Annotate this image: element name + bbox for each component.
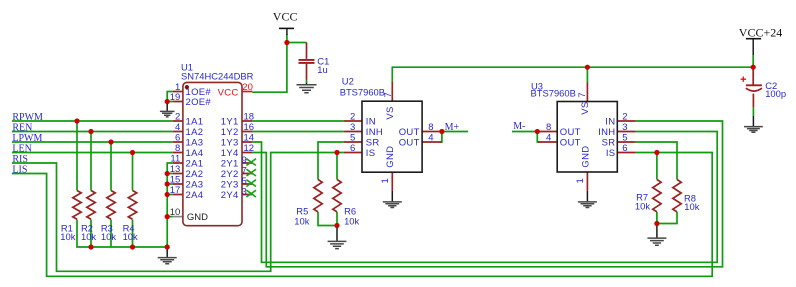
ground (below U1 / resistor rail) <box>158 249 177 264</box>
svg-text:7: 7 <box>577 92 588 97</box>
svg-text:1: 1 <box>380 178 391 183</box>
wire REN <box>12 131 173 133</box>
svg-text:GND: GND <box>187 212 208 223</box>
svg-text:VCC+24: VCC+24 <box>739 25 782 39</box>
ground (U1 pins 1,19) <box>160 104 175 117</box>
no-connect X on U1 pin 5 <box>246 180 256 187</box>
svg-text:BTS7960B: BTS7960B <box>531 88 576 99</box>
resistor R5 <box>314 180 322 212</box>
U1 pin stubs left <box>173 92 183 195</box>
wire C2 lower lead green bit <box>752 107 754 116</box>
ground (C2) <box>744 116 763 132</box>
svg-text:2Y4: 2Y4 <box>221 190 239 201</box>
svg-text:5: 5 <box>242 176 247 187</box>
svg-text:13: 13 <box>170 164 181 175</box>
svg-text:1A1: 1A1 <box>186 116 204 127</box>
wire R1-R4 bottoms to ground rail <box>77 220 167 248</box>
junction node U2 IS / R6 <box>334 150 339 155</box>
svg-text:2Y2: 2Y2 <box>221 169 239 180</box>
svg-text:LIS: LIS <box>12 164 27 175</box>
svg-text:8: 8 <box>175 143 180 154</box>
svg-text:M+: M+ <box>445 122 460 133</box>
svg-text:3: 3 <box>242 187 247 198</box>
svg-text:2A2: 2A2 <box>186 169 204 180</box>
junction node VCC+24/C2 <box>751 65 756 70</box>
capacitor C1 leads <box>306 43 308 80</box>
svg-text:19: 19 <box>170 92 181 103</box>
junction node rail R4 <box>130 244 135 249</box>
svg-text:4: 4 <box>428 132 433 143</box>
svg-text:5: 5 <box>622 132 627 143</box>
wire R5 R6 bottoms tie <box>318 212 337 226</box>
capacitor C2 plates (polarized) <box>746 84 762 86</box>
wire R7 R8 bottoms tie <box>657 212 677 224</box>
svg-text:8: 8 <box>428 122 433 133</box>
svg-text:3: 3 <box>622 122 627 133</box>
svg-text:18: 18 <box>244 111 255 122</box>
U3 BTS7960B body <box>557 102 617 173</box>
svg-text:10: 10 <box>170 207 181 218</box>
svg-text:M-: M- <box>513 121 525 132</box>
svg-text:10k: 10k <box>123 231 138 242</box>
svg-text:9: 9 <box>242 155 247 166</box>
capacitor C2 plus sign <box>741 77 746 82</box>
ground (R7 R8) <box>647 226 666 246</box>
svg-text:1Y2: 1Y2 <box>221 127 239 138</box>
power symbol VCC+24 <box>739 25 782 55</box>
U2 BTS7960B body <box>362 101 422 172</box>
junction node rail ground <box>165 244 170 249</box>
svg-text:10k: 10k <box>101 231 116 242</box>
svg-text:OUT: OUT <box>560 127 581 138</box>
svg-text:6: 6 <box>175 132 180 143</box>
svg-text:1Y3: 1Y3 <box>221 137 239 148</box>
wire R4 top hang <box>132 153 134 191</box>
svg-text:1Y1: 1Y1 <box>221 116 239 127</box>
wire 1Y1 to U2 IN <box>252 120 344 122</box>
U1 VCC pin 20 stub (red) <box>242 91 252 93</box>
svg-text:2: 2 <box>622 111 627 122</box>
svg-text:IS: IS <box>366 148 376 159</box>
svg-text:2Y3: 2Y3 <box>221 179 239 190</box>
U3 pin stubs left OUT <box>538 132 557 143</box>
svg-text:1Y4: 1Y4 <box>221 148 239 159</box>
junction node rail R2 <box>88 244 93 249</box>
svg-text:VS: VS <box>385 106 396 119</box>
svg-text:10k: 10k <box>81 231 96 242</box>
resistor R2 <box>87 191 95 220</box>
svg-text:16: 16 <box>244 122 255 133</box>
junction node REN/R2 <box>88 129 93 134</box>
svg-text:4: 4 <box>546 132 551 143</box>
resistor R3 <box>107 191 115 220</box>
junction node U1 pin 17 <box>165 192 170 197</box>
svg-text:7: 7 <box>242 166 247 177</box>
svg-text:1: 1 <box>575 178 586 183</box>
junction node U1 pin 13 <box>165 171 170 176</box>
ground (C1) <box>297 83 317 93</box>
junction node LPWM/R3 <box>108 139 113 144</box>
svg-text:U2: U2 <box>342 76 354 87</box>
wire RPWM <box>12 120 173 122</box>
power symbol VCC <box>273 10 298 35</box>
svg-text:2A4: 2A4 <box>186 190 204 201</box>
svg-text:10k: 10k <box>684 201 699 212</box>
U1 GND pin 10 stub (gray) <box>173 216 183 218</box>
wire R2 top hang <box>90 132 92 191</box>
junction node VCC/C1 <box>284 40 289 45</box>
svg-text:10k: 10k <box>344 215 359 226</box>
wire R7 hang from U3 IS wire <box>656 153 658 180</box>
svg-text:INH: INH <box>366 127 383 138</box>
no-connect X on U1 pin 9 <box>246 159 256 166</box>
wire VCC net: symbol stem down, branch right to C1, down to U1 pin 20 <box>252 34 306 92</box>
U2 pin stubs left <box>344 121 362 153</box>
svg-text:SR: SR <box>366 137 380 148</box>
U3 pin stubs right <box>617 121 635 153</box>
svg-text:17: 17 <box>170 185 181 196</box>
svg-text:SN74HC244DBR: SN74HC244DBR <box>181 71 254 82</box>
svg-text:REN: REN <box>12 122 32 133</box>
svg-text:8: 8 <box>546 122 551 133</box>
svg-text:RPWM: RPWM <box>12 112 43 123</box>
svg-text:LEN: LEN <box>12 143 31 154</box>
svg-text:2OE#: 2OE# <box>186 97 212 108</box>
svg-text:1A3: 1A3 <box>186 137 204 148</box>
svg-text:1u: 1u <box>317 64 327 75</box>
resistor R8 <box>673 180 681 212</box>
wire 1Y2 to U2 INH <box>252 131 344 133</box>
resistor R1 <box>73 191 81 220</box>
wire RIS to U2 IS via bottom rail <box>12 153 344 272</box>
svg-text:1A4: 1A4 <box>186 148 204 159</box>
wire 1Y4 to U3 IN via bottom rail <box>252 121 722 267</box>
wire U1 pins 1,19 tie to ground <box>167 92 173 102</box>
svg-text:IN: IN <box>605 116 615 127</box>
ground (U2 GND) <box>383 191 402 208</box>
svg-text:10k: 10k <box>635 200 650 211</box>
wire M- node at U3 OUT pins <box>512 132 539 143</box>
svg-text:20: 20 <box>242 82 253 93</box>
U3 VS pin stub <box>586 82 588 101</box>
svg-text:4: 4 <box>175 122 180 133</box>
svg-text:10k: 10k <box>294 215 309 226</box>
svg-text:OUT: OUT <box>560 137 581 148</box>
wire M+ node at U2 OUT pins <box>440 132 468 143</box>
resistor R7 <box>653 180 661 212</box>
U2 pin stubs right OUT <box>422 132 442 143</box>
wire 1Y3 to U3 INH via bottom rail <box>252 132 717 263</box>
svg-text:10k: 10k <box>60 231 75 242</box>
resistor R4 <box>128 191 136 220</box>
ground (R5 R6) <box>328 228 347 249</box>
svg-text:1A2: 1A2 <box>186 127 204 138</box>
svg-text:5: 5 <box>350 132 355 143</box>
svg-text:2A3: 2A3 <box>186 179 204 190</box>
U1 pin-1 marker dot <box>185 85 189 89</box>
no-connect X on U1 pin 7 <box>246 169 256 176</box>
svg-text:6: 6 <box>622 143 627 154</box>
U2 VS pin stub <box>391 82 393 101</box>
op-amp U1 SN74HC244DBR body <box>183 82 242 225</box>
junction node U1 pin 10 <box>165 214 170 219</box>
resistor R6 <box>333 180 341 212</box>
junction node R7 R8 gnd <box>654 221 659 226</box>
junction node U1 pin 15 <box>165 181 170 186</box>
svg-text:14: 14 <box>244 132 255 143</box>
no-connect X on U1 pin 3 <box>246 190 256 197</box>
wire C1 bottom lead green bit <box>306 80 308 83</box>
svg-text:GND: GND <box>580 146 591 168</box>
wire R3 top hang <box>110 142 112 191</box>
junction node RPWM/R1 <box>74 118 79 123</box>
svg-text:IN: IN <box>366 116 376 127</box>
svg-text:BTS7960B: BTS7960B <box>340 87 385 98</box>
wire LPWM <box>12 141 173 143</box>
svg-text:12: 12 <box>244 143 255 154</box>
junction node M- <box>535 129 540 134</box>
svg-text:VS: VS <box>580 101 591 114</box>
svg-text:OUT: OUT <box>399 137 420 148</box>
svg-text:OUT: OUT <box>399 127 420 138</box>
svg-text:15: 15 <box>170 174 181 185</box>
svg-text:2A1: 2A1 <box>186 158 204 169</box>
wire LEN <box>12 152 173 154</box>
junction node U3 VS on rail <box>585 65 590 70</box>
junction node U3 IS / R7 <box>654 150 659 155</box>
capacitor C2 leads <box>752 67 754 107</box>
svg-text:2Y1: 2Y1 <box>221 158 239 169</box>
svg-text:100p: 100p <box>765 88 786 99</box>
svg-text:LPWM: LPWM <box>12 133 42 144</box>
wire U3 SR to R8 <box>636 142 677 180</box>
svg-text:11: 11 <box>170 153 180 164</box>
wire R6 hang from U2 IS wire <box>336 153 338 180</box>
U2 GND pin stub <box>391 172 393 191</box>
wire LIS to U3 IS via bottom rail <box>12 153 712 277</box>
svg-text:2: 2 <box>350 111 355 122</box>
svg-text:2: 2 <box>175 111 180 122</box>
capacitor C1 plates <box>299 60 315 63</box>
junction node LEN/R4 <box>130 150 135 155</box>
U3 GND pin stub <box>586 172 588 191</box>
wire U2 SR to R5 <box>318 142 344 180</box>
ground (U3 GND) <box>578 191 597 208</box>
wire U1 pins 11,13,15,17,10 tie down to ground rail <box>167 163 173 247</box>
junction node U1 pin 19 gnd <box>165 99 170 104</box>
svg-text:6: 6 <box>350 143 355 154</box>
junction node R5 R6 gnd <box>334 223 339 228</box>
svg-text:7: 7 <box>383 92 394 97</box>
svg-text:IS: IS <box>606 148 616 159</box>
svg-text:RIS: RIS <box>12 154 28 165</box>
svg-text:GND: GND <box>385 146 396 168</box>
junction node M+ <box>439 129 444 134</box>
U1 pin stubs right <box>242 121 252 195</box>
wire VS rail from U2 VS up over to VCC+24, with U3 VS drop <box>392 55 753 83</box>
svg-text:3: 3 <box>350 122 355 133</box>
svg-text:VCC: VCC <box>273 10 298 24</box>
svg-text:INH: INH <box>598 127 615 138</box>
svg-text:SR: SR <box>602 137 616 148</box>
svg-text:VCC: VCC <box>218 87 239 98</box>
wire R1 top hang <box>76 121 78 191</box>
